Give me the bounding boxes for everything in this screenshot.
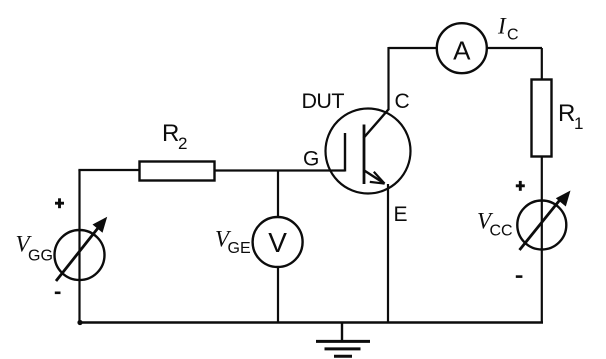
svg-text:V: V [268,227,287,258]
ground [341,322,343,341]
svg-text:R: R [162,120,179,147]
variable source VGG arrow [56,228,98,281]
svg-text:C: C [507,27,519,44]
wire: emitter lead vertical [387,184,389,323]
svg-text:GG: GG [28,248,53,265]
wire: right vertical rail [541,48,543,323]
wire: gate wire from R2 to transistor gate [214,169,345,171]
transistor gate bar [344,133,346,172]
wire: left vertical from top-left corner to bottom-left corner [78,170,80,323]
variable source VGG circle [55,230,105,280]
svg-text:R: R [558,100,575,127]
svg-text:2: 2 [178,134,187,153]
plus sign V_CC [519,181,522,191]
transistor emitter diagonal with open arrow [364,170,384,183]
svg-text:CC: CC [490,223,513,240]
transistor collector diagonal [364,109,389,138]
resistor R2 [140,162,215,181]
wire: top horizontal through ammeter [389,47,543,49]
svg-text:G: G [303,148,319,171]
svg-text:E: E [394,203,408,226]
node: junction dot bottom-left [77,320,82,325]
svg-text:GE: GE [228,240,251,257]
variable source VCC circle [517,201,566,250]
variable source VCC arrow [520,199,562,251]
wire: top-left horizontal from corner to R2 [78,169,140,171]
transistor body bar [363,125,366,185]
minus sign V_CC [516,275,523,278]
svg-text:DUT: DUT [302,89,345,113]
minus sign V_GG [55,291,61,294]
ammeter A [437,23,487,73]
wire: collector lead vertical [387,47,389,110]
transistor DUT (IGBT) envelope circle [326,109,411,194]
svg-text:C: C [395,90,410,113]
svg-text:1: 1 [574,114,583,133]
svg-text:A: A [453,36,471,66]
wire: bottom horizontal rail [78,321,543,324]
plus sign V_GG [58,198,61,208]
wire: voltmeter branch upper [277,170,279,221]
svg-text:I: I [497,14,507,39]
voltmeter V [253,217,303,267]
wire: voltmeter branch lower [277,264,279,323]
resistor R1 [532,80,552,157]
